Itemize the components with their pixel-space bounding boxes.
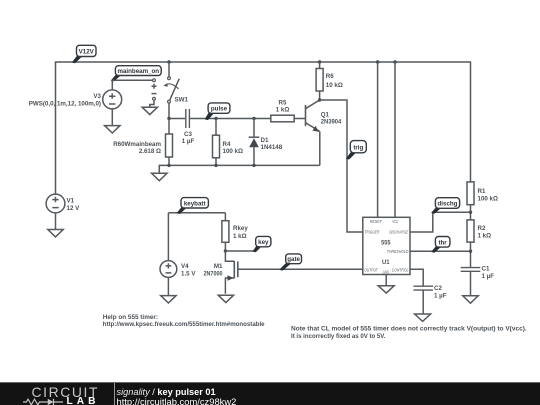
svg-text:DISCHARGE: DISCHARGE [389,230,409,235]
svg-text:R60Wmainbeam: R60Wmainbeam [113,141,161,148]
svg-text:mainbeam_on: mainbeam_on [117,68,159,75]
svg-text:THRESHOLD: THRESHOLD [387,249,409,254]
ground below SW1 control [142,107,157,114]
node key label [253,236,271,252]
ground below V1 [48,230,63,237]
resistor Rkey [222,213,248,251]
divider [114,383,115,405]
node keybatt label [177,198,209,214]
transistor M1 [204,251,238,294]
svg-text:1.5 V: 1.5 V [181,271,196,278]
svg-text:It is incorrectly fixed as 0V: It is incorrectly fixed as 0V to 5V. [291,333,386,340]
junction bottom rail / D1 [252,164,255,167]
wire Q1 emitter to ground rail [319,131,321,165]
junction bottom rail / R60W [167,164,170,167]
svg-text:2N3904: 2N3904 [321,118,342,125]
junction bottom rail / R4 [214,164,217,167]
svg-text:RESET: RESET [370,219,383,224]
ground below C1 [463,296,478,303]
svg-text:Q1: Q1 [321,111,330,118]
junction key node [224,249,227,252]
svg-text:key: key [258,239,269,246]
node trig label [346,141,366,160]
voltage source V1 [46,194,80,213]
wire gate net (555 OUTPUT to M1 gate) [238,268,363,270]
svg-text:M1: M1 [214,263,223,270]
junction pulse/SW1 [167,117,170,120]
junction top rail / 555 RESET [376,60,379,63]
logo LAB [67,396,100,405]
title line [117,388,216,397]
node pulse label [205,103,230,120]
SW1 control + terminal [153,79,156,82]
wire mainbeam_on node to SW1 control plus [112,79,152,81]
junction top rail / SW1 [167,60,170,63]
svg-text:12 V: 12 V [67,205,81,212]
wire key stub [225,250,254,252]
wire thr net to 555 THRESHOLD [410,250,471,252]
svg-text:keybatt: keybatt [184,200,206,207]
svg-text:Note that CL model of 555 time: Note that CL model of 555 timer does not… [291,325,527,332]
svg-text:U1: U1 [382,259,390,266]
junction dischg node [469,211,472,214]
ground below V3 [105,126,120,133]
resistor R6 [316,62,343,100]
voltage source V4 [160,213,196,278]
svg-text:VCC: VCC [392,219,399,224]
node mainbeam_on label [111,66,162,82]
wire V4 to ground [167,277,169,295]
svg-text:R4: R4 [223,141,231,148]
svg-text:10 kΩ: 10 kΩ [326,82,343,89]
svg-text:C3: C3 [184,131,192,138]
svg-text:Help on 555 timer:: Help on 555 timer: [103,314,158,321]
svg-text:Rkey: Rkey [233,225,248,232]
junction top rail / R6 [318,60,321,63]
svg-text:2N7000: 2N7000 [204,271,223,278]
transistor Q1 [306,100,342,132]
op-amp/timer U1 555 box [363,217,410,274]
ground below M1 [218,295,233,302]
junction pulse/D1 [252,117,255,120]
resistor R1 [467,182,498,220]
svg-text:CONTROL: CONTROL [392,267,409,272]
capacitor C3 [182,109,195,145]
switch SW1 [163,62,188,119]
svg-text:100 kΩ: 100 kΩ [478,196,498,203]
resistor R60Wmainbeam [113,119,172,166]
SW1 control - terminal [153,97,156,100]
svg-text:D1: D1 [261,137,269,144]
svg-text:C1: C1 [482,265,490,272]
svg-text:1 µF: 1 µF [434,293,447,300]
voltage source V3 [29,90,122,109]
svg-text:V12V: V12V [79,49,95,56]
svg-text:dischg: dischg [438,201,458,208]
wire 555 RESET to top rail [377,62,379,217]
junction thr node [469,250,472,253]
wire V3 to ground [111,108,113,125]
ground below V4 [161,296,176,303]
wire trig net (collector to 555 TRIGGER) [320,100,363,232]
svg-text:pulse: pulse [211,106,228,113]
resistor R2 [467,220,491,268]
svg-text:V1: V1 [67,197,75,204]
svg-text:2.618 Ω: 2.618 Ω [139,148,161,155]
junction top rail / 555 VCC [393,60,396,63]
resistor R5 [271,99,294,121]
svg-text:1 µF: 1 µF [482,273,495,280]
wire bottom ground rail [159,165,319,173]
svg-text:PWS(0,0, 1m,12, 100m,0): PWS(0,0, 1m,12, 100m,0) [29,101,101,108]
svg-text:1N4148: 1N4148 [261,144,283,151]
svg-text:SW1: SW1 [175,97,189,104]
wire top rail V12V net [56,62,471,194]
wire dischg net to 555 DISCHARGE [410,212,471,232]
diode D1 [249,119,283,166]
svg-text:C2: C2 [434,285,442,292]
wire SW1 control minus to ground [150,101,154,108]
node V12V label [72,45,96,63]
wire 555 VCC to top rail [394,62,396,217]
wire mainbeam_on node to V3 [111,80,113,90]
junction pulse/R4 [214,117,217,120]
ground below 555 [378,286,394,293]
svg-text:100 kΩ: 100 kΩ [223,148,243,155]
SW1 plus mark [152,84,157,89]
node dischg label [431,198,460,214]
node keybatt rail [168,212,225,214]
svg-text:1 µF: 1 µF [182,138,195,145]
svg-text:http://www.kpsec.freeuk.com/55: http://www.kpsec.freeuk.com/555timer.htm… [103,321,265,328]
svg-text:1 kΩ: 1 kΩ [276,106,290,113]
logo CIRCUIT [32,384,100,400]
wire 555 GND to ground [385,275,387,286]
svg-text:1 kΩ: 1 kΩ [478,233,492,240]
node thr label [431,237,450,253]
ground bottom rail [152,173,167,180]
svg-text:555: 555 [381,239,391,246]
svg-text:trig: trig [353,144,363,151]
wire pulse net [169,118,306,120]
svg-text:OUTPUT: OUTPUT [364,267,378,272]
svg-text:V3: V3 [93,93,101,100]
svg-text:gate: gate [287,256,300,263]
wire V1 to ground [55,213,57,230]
resistor R4 [213,119,243,166]
svg-text:1 kΩ: 1 kΩ [233,233,247,240]
svg-text:R2: R2 [478,225,486,232]
ground below C2 [415,314,431,321]
svg-text:thr: thr [438,239,447,246]
svg-text:R1: R1 [478,188,486,195]
url line [117,397,237,405]
svg-text:V4: V4 [181,263,189,270]
svg-text:R5: R5 [279,99,287,106]
svg-text:R6: R6 [326,73,334,80]
svg-text:TRIGGER: TRIGGER [364,230,380,235]
SW1 minus mark [152,93,157,95]
capacitor C2 [413,285,446,314]
junction Q1 collector node [318,98,321,101]
node gate label [279,254,301,271]
capacitor C1 [461,265,495,296]
footer bar [0,382,540,405]
svg-text:GND: GND [383,270,390,275]
wire 555 CONTROL to C2 [410,269,423,286]
logo resistor-diode glyph [23,397,63,405]
